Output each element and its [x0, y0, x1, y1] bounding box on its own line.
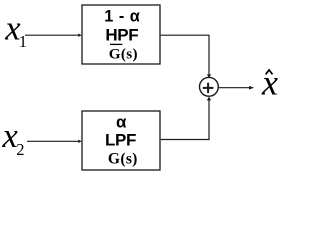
wire LPF output to summer: [161, 97, 212, 140]
wire x1 input arrow: [25, 34, 82, 37]
label Gbar(s) transfer function of HPF: [109, 44, 138, 62]
wire x2 input arrow: [27, 140, 82, 143]
svg-text:G(s): G(s): [108, 150, 138, 167]
wire HPF output to summer: [161, 35, 212, 78]
node x1 label: [4, 10, 27, 52]
svg-text:G(s): G(s): [109, 45, 138, 62]
svg-text:x: x: [261, 62, 278, 102]
node x2 label: [2, 117, 25, 159]
node xhat output label: [261, 62, 278, 102]
summing junction: [200, 77, 219, 96]
block HPF (1 - alpha): [82, 5, 160, 64]
svg-text:HPF: HPF: [105, 26, 138, 45]
svg-text:1 - α: 1 - α: [104, 8, 140, 26]
svg-text:α: α: [116, 113, 127, 132]
block LPF (alpha): [82, 111, 160, 170]
svg-text:LPF: LPF: [105, 131, 136, 150]
wire summer output arrow: [218, 86, 254, 90]
svg-text:2: 2: [16, 140, 24, 159]
